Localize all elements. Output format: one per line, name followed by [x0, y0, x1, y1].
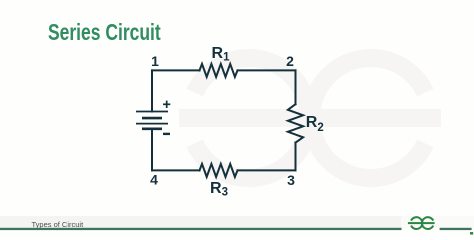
wire R1 to node2: [238, 69, 296, 71]
title: [48, 21, 161, 44]
wire node3 to R3: [238, 169, 296, 171]
footer corner mark: [470, 232, 473, 235]
resistor R2: [288, 104, 303, 142]
battery plus label: [163, 101, 170, 108]
watermark logo: [179, 58, 441, 178]
battery V1: [136, 112, 168, 129]
wire R2 to node3: [295, 143, 297, 171]
resistor R3: [200, 164, 238, 177]
footer rule left: [0, 228, 402, 230]
wire node4 to battery minus: [151, 129, 153, 171]
resistor R1: [200, 64, 238, 77]
geeksforgeeks logo: [408, 217, 435, 229]
footer rule right: [440, 228, 472, 230]
wire node2 to R2: [295, 70, 297, 104]
wire R3 to node4: [152, 169, 200, 171]
footer bar: [0, 216, 401, 228]
wire node1 to R1: [152, 69, 200, 71]
battery minus label: [163, 133, 170, 135]
wire battery plus to node1: [151, 70, 153, 111]
